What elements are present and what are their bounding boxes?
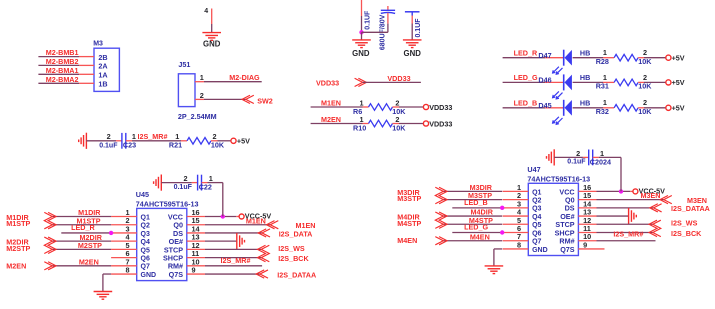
power node +5V: [666, 55, 671, 60]
svg-text:LED_R: LED_R: [71, 223, 95, 232]
pin 11 stub: [187, 257, 205, 259]
capacitor C 680UF/80V: [387, 6, 389, 10]
resistor R31: [614, 79, 638, 86]
ground (rotated): [85, 133, 87, 149]
wire net M2-BMB1: [38, 56, 79, 58]
svg-text:I2S_DATA: I2S_DATA: [279, 229, 313, 238]
resistor R28: [614, 54, 638, 61]
junction: [619, 189, 623, 193]
svg-text:LED_G: LED_G: [464, 223, 488, 232]
svg-text:I2S_MR#: I2S_MR#: [138, 132, 168, 141]
wire net I2S_MR#: [205, 265, 262, 267]
pin 8 stub: [503, 248, 529, 250]
pin 4 stub: [111, 240, 137, 242]
wire net I2S_WS: [597, 223, 653, 225]
pin 14 stub: [187, 232, 205, 234]
op-amp.. ic U45 body: [137, 208, 187, 280]
wire: [399, 123, 423, 125]
svg-text:I2S_WS: I2S_WS: [278, 244, 305, 253]
pin 10 stub: [578, 240, 596, 242]
svg-text:I2S_BCK: I2S_BCK: [671, 229, 702, 238]
svg-text:M4EN: M4EN: [470, 232, 490, 241]
wire VCC-5V: [205, 216, 236, 218]
wire to ground: [103, 273, 111, 275]
pin stub 2A: [79, 64, 94, 66]
off-page connector I2S_WS/I2S_BCK: [653, 220, 661, 236]
wire net I2S_DATAA: [597, 207, 654, 209]
pin 7 stub: [111, 265, 137, 267]
wire: [573, 107, 603, 109]
svg-text:Q3: Q3: [532, 206, 541, 213]
connector M3 body: [94, 48, 119, 91]
svg-text:VDD33: VDD33: [429, 119, 452, 128]
off-page connector I2S_DATA: [262, 229, 270, 237]
svg-text:LED_R: LED_R: [514, 49, 538, 58]
svg-text:Q2: Q2: [532, 198, 541, 205]
off-page connector M3DIR/M3STP: [435, 187, 443, 203]
svg-text:9: 9: [583, 240, 587, 249]
svg-text:1A: 1A: [98, 71, 107, 80]
pin 11 stub: [578, 232, 596, 234]
svg-text:Q6: Q6: [532, 230, 541, 237]
svg-text:74AHCT595T16-13: 74AHCT595T16-13: [136, 200, 199, 209]
pin stub 1: [363, 106, 369, 108]
wire: [86, 140, 116, 142]
svg-text:U47: U47: [527, 165, 540, 174]
svg-text:0.1uF: 0.1uF: [567, 159, 586, 166]
svg-text:M2-BMB1: M2-BMB1: [46, 48, 79, 57]
svg-text:1: 1: [603, 48, 607, 57]
wire net LED_B: [452, 207, 502, 209]
pin 14 stub: [578, 207, 596, 209]
power node VDD33: [423, 121, 428, 126]
svg-text:C23: C23: [123, 141, 136, 150]
LED D46: [563, 74, 565, 90]
wire net M3STP: [443, 199, 502, 201]
svg-text:GND: GND: [532, 247, 548, 254]
svg-text:1: 1: [132, 132, 136, 141]
pin 5 stub: [503, 223, 529, 225]
wire net M2-BMA2: [38, 82, 79, 84]
svg-text:M4STP: M4STP: [397, 219, 421, 228]
svg-text:0.1uF: 0.1uF: [99, 143, 118, 150]
svg-text:0.1UF: 0.1UF: [364, 10, 371, 30]
pin 8 stub: [111, 273, 137, 275]
pin 12 stub: [578, 223, 596, 225]
off-page connector M1EN: [270, 221, 278, 229]
wire net I2S_MR#: [597, 240, 656, 242]
svg-text:2B: 2B: [98, 53, 107, 62]
svg-text:LED_B: LED_B: [464, 198, 488, 207]
pin stub 2B: [79, 56, 94, 58]
wire to ground: [361, 32, 363, 40]
wire net M2EN: [311, 123, 363, 125]
capacitor 0.1UF: [405, 11, 420, 13]
capacitor 0.1UF lead: [361, 0, 363, 16]
wire: [211, 140, 218, 142]
pin 16 stub: [578, 190, 596, 192]
svg-text:8: 8: [517, 240, 521, 249]
svg-text:10K: 10K: [392, 123, 406, 132]
resistor R6: [369, 104, 393, 111]
wire to ground: [211, 9, 213, 25]
svg-text:1: 1: [603, 73, 607, 82]
wire net LED_B: [503, 107, 545, 109]
wire net I2S_BCK: [205, 257, 261, 259]
LED D47: [563, 50, 565, 66]
ground: [485, 265, 504, 267]
wire net M2-DIAG: [204, 81, 262, 83]
svg-text:1: 1: [209, 174, 213, 183]
capacitor C2024: [588, 150, 590, 166]
ground (rotated): [160, 175, 162, 191]
svg-text:GND: GND: [203, 40, 221, 49]
ground (rotated): [553, 149, 555, 165]
wire net M2DIR: [52, 240, 111, 242]
pin stub 2: [393, 106, 400, 108]
wire: [554, 156, 583, 158]
svg-text:I2S_MR#: I2S_MR#: [613, 230, 643, 239]
pin 9 stub: [187, 273, 205, 275]
svg-text:VDD33: VDD33: [429, 103, 452, 112]
svg-text:Q7: Q7: [141, 264, 150, 271]
wire: [399, 106, 423, 108]
wire net LED_G: [503, 81, 545, 83]
svg-text:M3EN: M3EN: [641, 191, 661, 200]
off-page connector VDD33: [355, 78, 363, 86]
off-page connector SW2: [246, 95, 254, 103]
svg-text:HB: HB: [580, 73, 590, 82]
off-page connector I2S_WS/I2S_BCK: [261, 245, 269, 261]
svg-text:M2-BMA2: M2-BMA2: [46, 75, 79, 84]
svg-text:M2EN: M2EN: [6, 261, 26, 270]
svg-text:VDD33: VDD33: [316, 78, 339, 87]
pin 2 stub: [503, 199, 529, 201]
wire: [573, 81, 603, 83]
pin stub 2: [393, 123, 400, 125]
pin 5 stub: [111, 248, 137, 250]
svg-text:2: 2: [107, 132, 111, 141]
wire net LED_R: [503, 57, 545, 59]
pin 2 stub: [195, 98, 204, 100]
svg-text:M2-BMA1: M2-BMA1: [46, 66, 79, 75]
wire net M1EN: [311, 106, 363, 108]
pin 1 stub: [111, 216, 137, 218]
svg-text:R21: R21: [169, 141, 182, 150]
svg-text:2: 2: [200, 91, 204, 100]
pin 1 stub: [195, 81, 204, 83]
power node VCC-5V: [239, 214, 244, 219]
svg-text:HB: HB: [580, 99, 590, 108]
wire net I2S_BCK: [597, 232, 653, 234]
svg-text:LED_B: LED_B: [514, 99, 538, 108]
LED D45: [563, 100, 565, 116]
svg-text:GND: GND: [141, 272, 157, 279]
ground (rotated): [628, 208, 630, 224]
wire OE# to ground: [597, 215, 629, 217]
power node +5V: [666, 105, 671, 110]
junction: [221, 214, 225, 218]
off-page connector I2S_DATAA: [260, 270, 268, 278]
wire net M3EN: [597, 199, 664, 201]
svg-text:M2EN: M2EN: [79, 257, 99, 266]
pin 7 stub: [503, 240, 529, 242]
off-page connector M4DIR/M4STP: [435, 212, 443, 228]
resistor R10: [369, 120, 393, 127]
svg-text:GND: GND: [352, 49, 370, 58]
wire net M4STP: [443, 223, 502, 225]
wire: [638, 81, 644, 83]
svg-text:D45: D45: [538, 101, 551, 110]
svg-text:1B: 1B: [98, 80, 107, 89]
svg-text:Q4: Q4: [532, 214, 541, 221]
resistor R21: [187, 138, 211, 145]
pin 15 stub: [187, 224, 205, 226]
pin 12 stub: [187, 248, 205, 250]
pin 10 stub: [187, 265, 205, 267]
svg-text:J51: J51: [178, 60, 190, 69]
svg-text:M1STP: M1STP: [6, 219, 30, 228]
svg-text:R31: R31: [596, 82, 609, 91]
svg-text:2: 2: [643, 48, 647, 57]
wire net M1STP: [52, 224, 111, 226]
ground: [94, 291, 113, 293]
svg-text:M2-DIAG: M2-DIAG: [229, 73, 260, 82]
svg-text:2: 2: [183, 174, 187, 183]
svg-text:I2S_DATAA: I2S_DATAA: [277, 270, 316, 279]
svg-text:I2S_DATAA: I2S_DATAA: [671, 204, 710, 213]
svg-text:+5V: +5V: [237, 137, 250, 146]
off-page connector I2S_DATAA: [654, 204, 662, 212]
power node VCC-5V: [633, 189, 638, 194]
svg-text:1: 1: [600, 149, 604, 158]
wire OE# to ground: [205, 240, 237, 242]
ground: [202, 32, 221, 34]
power node +5V: [666, 80, 671, 85]
pin 13 stub: [578, 215, 596, 217]
svg-text:+5V: +5V: [672, 54, 685, 63]
off-page connector M3EN: [664, 196, 672, 204]
pin 16 stub: [187, 216, 205, 218]
wire: [161, 182, 192, 184]
junction: [359, 30, 363, 34]
svg-text:1: 1: [200, 73, 204, 82]
svg-text:D46: D46: [538, 76, 551, 85]
svg-text:Q5: Q5: [141, 247, 150, 254]
wire net M2-BMB2: [38, 64, 79, 66]
capacitor C22: [197, 175, 199, 191]
off-page connector M4EN: [435, 237, 443, 245]
svg-text:Q2: Q2: [141, 223, 150, 230]
op-amp.. ic U47 body: [528, 183, 578, 255]
pin 15 stub: [578, 199, 596, 201]
svg-text:2: 2: [643, 98, 647, 107]
wire: [573, 57, 603, 59]
svg-text:U45: U45: [136, 190, 149, 199]
svg-text:2: 2: [576, 149, 580, 158]
svg-text:I2S_MR#: I2S_MR#: [221, 256, 251, 265]
off-page connector M1DIR/M1STP: [44, 212, 52, 228]
svg-text:0.1uF: 0.1uF: [174, 184, 193, 191]
power node VDD33: [423, 104, 428, 109]
svg-text:M3STP: M3STP: [397, 194, 421, 203]
svg-text:GND: GND: [404, 49, 422, 58]
pin 3 stub: [503, 207, 529, 209]
svg-text:M1EN: M1EN: [246, 216, 266, 225]
off-page connector M2DIR/M2STP: [44, 237, 52, 253]
svg-text:I2S_BCK: I2S_BCK: [278, 254, 309, 263]
wire net I2S_DATA: [205, 232, 262, 234]
off-page connector M2EN: [44, 262, 52, 270]
svg-text:1: 1: [603, 98, 607, 107]
wire: [638, 57, 644, 59]
wire net M2EN: [52, 265, 111, 267]
svg-text:M2STP: M2STP: [78, 241, 102, 250]
svg-text:Q4: Q4: [141, 239, 150, 246]
pin 4 stub: [503, 215, 529, 217]
svg-text:M4EN: M4EN: [397, 236, 417, 245]
wire net SW2: [204, 98, 246, 100]
svg-text:M2-BMB2: M2-BMB2: [46, 57, 79, 66]
svg-text:10K: 10K: [211, 141, 225, 150]
svg-text:M2STP: M2STP: [6, 244, 30, 253]
svg-text:C22: C22: [199, 183, 212, 192]
wire net M3DIR: [443, 190, 502, 192]
wire net M1DIR: [52, 216, 111, 218]
svg-text:2P_2.54MM: 2P_2.54MM: [178, 112, 217, 121]
wire to ground: [494, 248, 502, 250]
pin 1 stub: [503, 190, 529, 192]
wire net M4EN: [443, 240, 502, 242]
svg-text:Q1: Q1: [532, 189, 541, 196]
ground (rotated): [236, 233, 238, 249]
wire to VCC pin: [593, 156, 599, 158]
wire net LED_G: [452, 232, 502, 234]
pin 3 stub: [111, 232, 137, 234]
power node +5V: [231, 138, 236, 143]
svg-text:SW2: SW2: [257, 96, 273, 105]
svg-text:M2EN: M2EN: [321, 115, 341, 124]
capacitor C23: [121, 133, 123, 149]
wire net M4DIR: [443, 215, 502, 217]
svg-text:C2024: C2024: [590, 158, 611, 167]
svg-text:M3: M3: [93, 41, 103, 48]
pin 6 stub: [111, 257, 137, 259]
svg-text:M1EN: M1EN: [321, 99, 341, 108]
svg-text:+5V: +5V: [672, 78, 685, 87]
wire net M2STP: [52, 248, 111, 250]
wire net I2S_WS: [205, 248, 261, 250]
wire: [362, 31, 388, 33]
svg-text:+5V: +5V: [672, 104, 685, 113]
svg-text:4: 4: [204, 8, 208, 15]
svg-text:R32: R32: [596, 107, 609, 116]
wire net I2S_DATAA: [205, 273, 260, 275]
svg-text:R28: R28: [596, 57, 609, 66]
svg-text:I2S_WS: I2S_WS: [671, 219, 698, 228]
svg-text:Q1: Q1: [141, 214, 150, 221]
svg-text:Q7S: Q7S: [560, 245, 575, 254]
svg-text:HB: HB: [580, 49, 590, 58]
junction: [500, 206, 504, 210]
svg-text:VDD33: VDD33: [387, 74, 410, 83]
wire net M1EN: [205, 224, 270, 226]
svg-text:Q5: Q5: [532, 222, 541, 229]
svg-text:8: 8: [125, 266, 129, 275]
pin 13 stub: [187, 240, 205, 242]
pin 9 stub: [578, 248, 604, 250]
svg-text:0.1UF: 0.1UF: [415, 18, 422, 38]
svg-text:D47: D47: [538, 51, 551, 60]
wire net M2-BMA1: [38, 73, 79, 75]
pin 6 stub: [503, 232, 529, 234]
svg-text:74AHCT595T16-13: 74AHCT595T16-13: [527, 175, 590, 184]
pin stub 1A: [79, 73, 94, 75]
resistor R32: [614, 105, 638, 112]
svg-text:Q6: Q6: [141, 256, 150, 263]
pin stub 1B: [79, 82, 94, 84]
ground: [403, 39, 422, 41]
connector J51 body: [178, 74, 195, 107]
wire net I2S_MR#: [126, 140, 132, 142]
wire VCC-5V: [597, 190, 631, 192]
wire to VCC pin: [202, 182, 208, 184]
svg-text:2A: 2A: [98, 62, 107, 71]
svg-text:2: 2: [643, 73, 647, 82]
wire net LED_R: [61, 232, 111, 234]
wire: [638, 107, 644, 109]
svg-text:Q7S: Q7S: [169, 270, 184, 279]
svg-text:Q3: Q3: [141, 231, 150, 238]
ground: [352, 39, 371, 41]
junction: [109, 231, 113, 235]
junction: [500, 230, 504, 234]
svg-text:Q7: Q7: [532, 239, 541, 246]
pin stub 1: [363, 123, 369, 125]
svg-text:LED_G: LED_G: [514, 73, 538, 82]
pin 2 stub: [111, 224, 137, 226]
wire net VDD33: [363, 81, 421, 83]
svg-text:R10: R10: [353, 123, 366, 132]
svg-text:9: 9: [192, 266, 196, 275]
